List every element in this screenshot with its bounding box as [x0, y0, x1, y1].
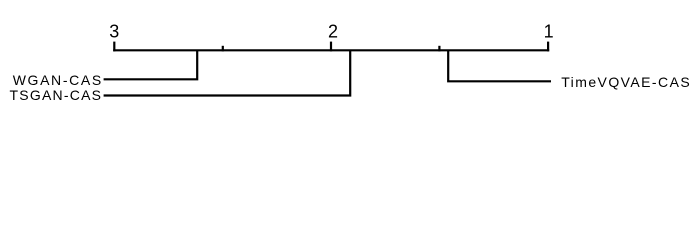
svg-text:2: 2 [328, 22, 338, 42]
major tick rank 2 [330, 42, 332, 52]
svg-text:TSGAN-CAS: TSGAN-CAS [10, 87, 102, 103]
major tick rank 3 [113, 42, 115, 52]
svg-text:1: 1 [544, 22, 554, 42]
minor tick rank 2.5 [222, 46, 224, 52]
axis spine [113, 49, 549, 51]
svg-text:3: 3 [109, 22, 119, 42]
connector line WGAN-CAS [104, 50, 198, 79]
major tick rank 1 [547, 42, 549, 52]
connector line TimeVQVAE-CAS [448, 50, 551, 81]
svg-text:TimeVQVAE-CAS: TimeVQVAE-CAS [561, 74, 690, 90]
connector line TSGAN-CAS [104, 50, 351, 95]
critical difference diagram [0, 0, 695, 118]
minor tick rank 1.5 [438, 46, 440, 52]
